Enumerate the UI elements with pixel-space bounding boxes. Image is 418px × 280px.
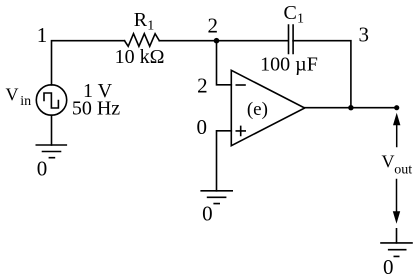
svg-text:C: C (284, 2, 297, 24)
capacitor value 100 uF (260, 54, 318, 76)
op-amp output wire (305, 107, 397, 109)
svg-text:1: 1 (147, 19, 154, 34)
ground stub (Vout) (396, 229, 398, 243)
op-amp (e) label (247, 99, 268, 120)
Vout label (382, 151, 413, 177)
Vin label (6, 85, 32, 109)
op-amp inverting minus sign (236, 84, 245, 86)
svg-text:100 µF: 100 µF (260, 54, 318, 76)
svg-text:1: 1 (37, 23, 48, 47)
resistor value 10 kOhm (115, 46, 165, 68)
op-amp U1 triangle (231, 70, 304, 145)
svg-text:2: 2 (208, 14, 219, 38)
capacitor C1 label (284, 2, 305, 27)
node 3 label (358, 23, 369, 47)
node 1 label (37, 23, 48, 47)
resistor R1 (125, 34, 160, 47)
Vin value 1 V (83, 80, 113, 102)
Vout up arrow (396, 125, 398, 147)
junction dot (feedback / output) (348, 105, 353, 110)
svg-text:2: 2 (197, 73, 208, 97)
svg-text:0: 0 (196, 115, 207, 139)
Vin source circle (36, 85, 66, 115)
svg-text:V: V (382, 151, 395, 171)
resistor R1 label (134, 9, 155, 34)
svg-text:3: 3 (358, 23, 369, 47)
svg-text:10 kΩ: 10 kΩ (115, 46, 165, 68)
capacitor C1 plates (289, 25, 294, 54)
node 0 label (non-inverting input) (196, 115, 207, 139)
wire node 2 to inverting input (217, 41, 232, 85)
Vout down arrow (396, 180, 398, 212)
ground (Vin) (36, 145, 66, 158)
svg-text:R: R (134, 9, 148, 31)
ground (Vout) (381, 243, 412, 257)
node 2 label (inverting input) (197, 73, 208, 97)
wire capacitor to node 3 corner, down right rail (293, 41, 351, 108)
node 2 junction dot (214, 38, 220, 44)
Vin square-wave symbol (44, 93, 58, 108)
wire non-inverting input to ground (217, 131, 232, 191)
node 0 label (Vout ground) (383, 255, 394, 279)
svg-text:out: out (394, 163, 412, 178)
ground (op-amp non-inverting) (201, 191, 232, 204)
node 0 label (op-amp ground) (202, 201, 213, 225)
svg-text:50 Hz: 50 Hz (72, 98, 120, 120)
svg-text:0: 0 (37, 157, 48, 181)
wire resistor to capacitor (through node 2) (159, 40, 288, 42)
wire Vin circle to ground (51, 115, 53, 145)
node 2 label (208, 14, 219, 38)
svg-text:V: V (6, 85, 19, 105)
svg-text:0: 0 (202, 201, 213, 225)
svg-text:(e): (e) (247, 99, 268, 120)
Vin value 50 Hz (72, 98, 120, 120)
wire node1 corner to resistor (52, 41, 125, 85)
svg-text:1: 1 (297, 12, 304, 27)
svg-text:0: 0 (383, 255, 394, 279)
svg-text:in: in (20, 94, 31, 109)
node 0 label (Vin ground) (37, 157, 48, 181)
op-amp non-inverting plus sign (236, 126, 245, 135)
output terminal dot (394, 105, 399, 110)
